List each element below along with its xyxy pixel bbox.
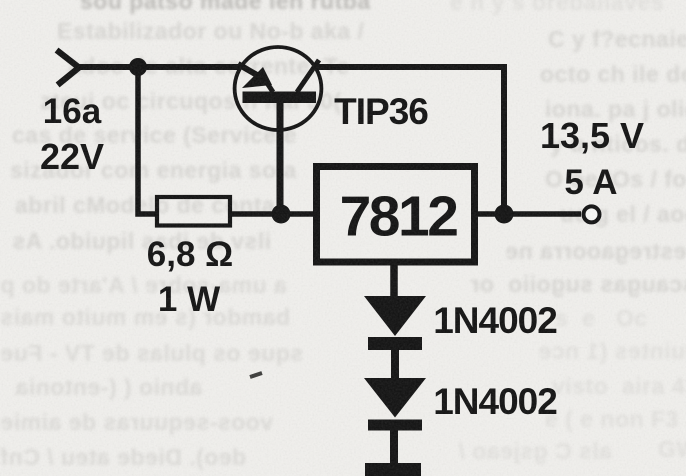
node A: input junction dot (129, 58, 147, 76)
output terminal (open circle) (584, 206, 600, 222)
stray ink mark (250, 373, 262, 377)
diode D2 1N4002 (364, 378, 426, 418)
wire: left branch down from input node to resistor (138, 67, 156, 214)
transistor Q1 TIP36 circle (235, 47, 322, 130)
wire: transistor base stem down to node B (277, 103, 284, 214)
node C: output junction dot (495, 205, 514, 224)
wire: between D1 and D2 (391, 350, 399, 379)
wire: input to transistor emitter (top rail left) (77, 64, 240, 70)
diode D1 1N4002 (364, 296, 426, 336)
node B: base/resistor/regulator junction dot (272, 205, 291, 224)
wire: regulator output to terminal (474, 211, 581, 217)
diode D3 (cut off at bottom edge) (365, 463, 421, 476)
faded bleed-through page text (decorative background) (80, 0, 371, 15)
wire: resistor to regulator input (231, 211, 313, 217)
wire: between D2 and D3 (390, 430, 398, 464)
wire: collector to output node (top rail right and drop) (316, 67, 504, 214)
resistor R1 (6,8 ohm box) (157, 197, 230, 226)
transistor Q1 base bar (243, 92, 317, 104)
input terminal chevron (59, 52, 79, 83)
regulator U1 7812 box (317, 167, 475, 263)
wire: regulator ground pin down to diode D1 (390, 262, 398, 297)
transistor Q1 emitter lead with PNP arrow (238, 64, 257, 75)
transistor Q1 collector lead (297, 60, 319, 92)
